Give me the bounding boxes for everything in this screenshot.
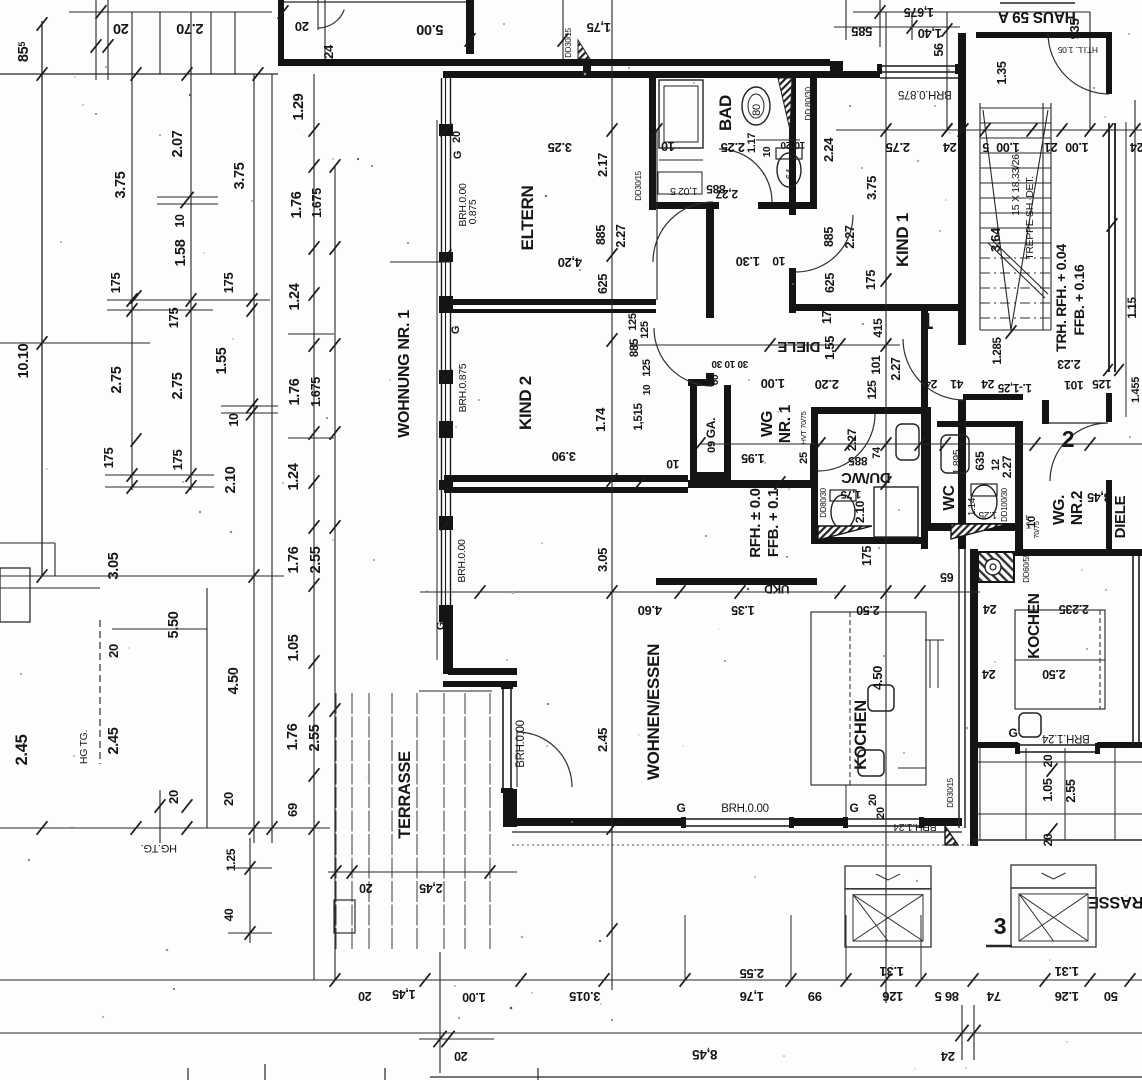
svg-text:2.24: 2.24	[821, 137, 836, 162]
svg-text:8,45: 8,45	[692, 1047, 718, 1062]
svg-text:74: 74	[871, 446, 883, 459]
svg-text:1.17: 1.17	[746, 133, 758, 153]
svg-text:4.50: 4.50	[226, 667, 242, 694]
svg-text:3.75: 3.75	[864, 176, 879, 200]
svg-text:2.17: 2.17	[595, 153, 610, 177]
svg-text:80: 80	[751, 104, 763, 116]
svg-text:885: 885	[594, 225, 608, 245]
svg-text:3.25: 3.25	[548, 140, 572, 155]
svg-text:415: 415	[871, 318, 885, 338]
svg-text:10: 10	[227, 413, 241, 427]
svg-text:3.75: 3.75	[113, 171, 129, 198]
svg-text:625: 625	[823, 273, 837, 293]
svg-text:1.14: 1.14	[967, 497, 978, 516]
svg-text:0.875: 0.875	[467, 199, 479, 224]
svg-text:G: G	[452, 151, 464, 159]
svg-text:NR.2: NR.2	[1069, 491, 1086, 525]
svg-text:2.07: 2.07	[170, 130, 186, 157]
svg-text:BRH.0.00: BRH.0.00	[456, 539, 468, 583]
svg-text:1.58: 1.58	[173, 239, 189, 266]
svg-text:WC: WC	[941, 485, 958, 510]
svg-text:10: 10	[794, 139, 805, 150]
svg-text:30: 30	[711, 358, 722, 369]
svg-text:UKD: UKD	[764, 582, 790, 596]
svg-text:24: 24	[924, 377, 937, 391]
svg-text:125: 125	[639, 321, 651, 339]
svg-text:2.55: 2.55	[740, 966, 764, 981]
svg-text:10: 10	[762, 146, 773, 157]
svg-text:FFB. + 0.16: FFB. + 0.16	[1071, 264, 1087, 336]
svg-text:5.50: 5.50	[166, 611, 182, 638]
svg-text:20: 20	[113, 20, 129, 36]
svg-text:2.50: 2.50	[856, 603, 879, 617]
svg-text:2.10: 2.10	[223, 466, 239, 493]
svg-text:1,76: 1,76	[740, 989, 764, 1004]
svg-text:1.-1,25: 1.-1,25	[997, 381, 1032, 393]
svg-text:20: 20	[1041, 754, 1055, 767]
svg-text:2.20: 2.20	[815, 377, 839, 392]
svg-text:09: 09	[706, 441, 718, 453]
svg-text:1,55: 1,55	[822, 336, 837, 360]
svg-text:DD80/30: DD80/30	[819, 487, 828, 517]
svg-text:24: 24	[321, 44, 336, 59]
svg-text:2.75: 2.75	[170, 372, 186, 399]
svg-text:1,45: 1,45	[392, 987, 415, 1001]
svg-text:ELTERN: ELTERN	[518, 186, 537, 251]
svg-text:20: 20	[780, 139, 791, 150]
svg-text:74: 74	[986, 989, 1001, 1004]
svg-text:1.895: 1.895	[951, 449, 963, 474]
svg-text:24: 24	[981, 377, 994, 391]
svg-text:10: 10	[809, 452, 821, 464]
svg-text:1.24: 1.24	[286, 463, 302, 490]
svg-text:4,20: 4,20	[558, 255, 582, 270]
svg-text:1.675: 1.675	[310, 188, 324, 218]
svg-text:64: 64	[785, 168, 796, 179]
svg-text:3.90: 3.90	[552, 449, 576, 464]
svg-text:HT.I.L. 1.05: HT.I.L. 1.05	[1057, 45, 1097, 55]
svg-text:2.27: 2.27	[889, 357, 903, 380]
svg-text:65: 65	[940, 570, 954, 584]
svg-text:1,75: 1,75	[587, 20, 611, 35]
svg-text:BRH.1.24: BRH.1.24	[1041, 732, 1089, 744]
svg-text:DD30/15: DD30/15	[946, 777, 955, 807]
svg-text:3,45: 3,45	[1087, 490, 1110, 504]
svg-text:1.05: 1.05	[1041, 778, 1055, 801]
svg-text:175: 175	[860, 546, 874, 566]
svg-text:3.015: 3.015	[569, 989, 600, 1004]
svg-text:2.27: 2.27	[614, 224, 628, 247]
svg-text:2.45: 2.45	[13, 734, 31, 765]
svg-text:1,02 5: 1,02 5	[670, 185, 698, 197]
svg-text:3.05: 3.05	[106, 552, 122, 579]
svg-text:1,75: 1,75	[841, 488, 861, 500]
svg-text:1.00: 1.00	[761, 376, 785, 391]
svg-text:50: 50	[1104, 989, 1118, 1004]
svg-text:24: 24	[983, 602, 997, 616]
svg-text:56: 56	[932, 43, 946, 57]
svg-text:24: 24	[982, 667, 996, 681]
svg-text:2.27: 2.27	[843, 225, 857, 248]
svg-text:BRH.1.24: BRH.1.24	[893, 821, 937, 833]
svg-text:10: 10	[173, 214, 187, 228]
svg-text:175: 175	[221, 273, 236, 294]
svg-text:41: 41	[950, 377, 963, 391]
svg-text:DD30/15: DD30/15	[564, 27, 573, 57]
svg-text:10: 10	[724, 358, 735, 369]
svg-text:1.29: 1.29	[291, 93, 307, 120]
svg-text:40: 40	[222, 908, 236, 921]
svg-text:1,515: 1,515	[633, 402, 645, 430]
svg-text:FFB. + 0.14: FFB. + 0.14	[765, 480, 782, 557]
svg-text:625: 625	[596, 274, 610, 294]
svg-text:3.75: 3.75	[232, 162, 248, 189]
svg-text:1.00: 1.00	[1065, 140, 1088, 154]
svg-text:WOHNEN/ESSEN: WOHNEN/ESSEN	[644, 644, 663, 780]
svg-text:DD 80/30: DD 80/30	[803, 87, 813, 121]
svg-text:101: 101	[869, 355, 883, 375]
svg-text:1.31: 1.31	[1055, 964, 1079, 979]
svg-text:DIELE: DIELE	[777, 338, 820, 355]
svg-text:3.05: 3.05	[595, 548, 610, 572]
svg-text:1.76: 1.76	[289, 191, 305, 218]
svg-text:1.15: 1.15	[1127, 297, 1139, 319]
svg-text:WG.: WG.	[1051, 495, 1068, 525]
svg-text:10: 10	[666, 457, 679, 471]
svg-text:24: 24	[940, 1049, 955, 1064]
svg-text:2.50: 2.50	[1042, 667, 1065, 681]
svg-text:G: G	[1008, 726, 1017, 740]
svg-text:20: 20	[221, 792, 236, 806]
svg-text:1.74: 1.74	[593, 407, 608, 432]
svg-text:24: 24	[1130, 140, 1142, 154]
svg-text:885: 885	[629, 338, 641, 357]
svg-text:2.70: 2.70	[176, 20, 203, 36]
svg-text:30: 30	[737, 358, 748, 369]
svg-text:2.55: 2.55	[308, 546, 324, 573]
svg-text:175: 175	[864, 270, 878, 290]
svg-text:5: 5	[982, 140, 989, 154]
svg-text:2.45: 2.45	[106, 727, 122, 754]
svg-text:2: 2	[1062, 426, 1075, 452]
svg-text:DD100/30: DD100/30	[1000, 487, 1009, 521]
svg-text:21: 21	[1044, 140, 1058, 154]
svg-text:DU/WC: DU/WC	[841, 469, 891, 486]
svg-text:1.30: 1.30	[736, 254, 760, 269]
svg-text:BRH.0.875: BRH.0.875	[898, 88, 952, 100]
svg-text:KIND 2: KIND 2	[516, 376, 535, 430]
svg-text:WOHNUNG NR. 1: WOHNUNG NR. 1	[396, 310, 413, 438]
svg-text:20: 20	[358, 989, 372, 1003]
svg-text:125: 125	[627, 313, 639, 331]
svg-text:1.76: 1.76	[287, 378, 303, 405]
svg-text:3.64: 3.64	[988, 227, 1003, 252]
svg-text:20: 20	[359, 881, 373, 895]
svg-text:G: G	[849, 801, 858, 815]
svg-text:70/75: 70/75	[1032, 521, 1041, 538]
svg-text:HG.TG.: HG.TG.	[141, 842, 177, 854]
svg-text:NR. 1: NR. 1	[777, 404, 794, 443]
svg-text:4.60: 4.60	[638, 603, 662, 618]
svg-text:15 X 18,33/26: 15 X 18,33/26	[1010, 154, 1022, 216]
svg-text:885: 885	[822, 227, 836, 247]
svg-text:125: 125	[1092, 377, 1112, 391]
svg-text:BRH.0.875: BRH.0.875	[457, 363, 469, 412]
svg-text:10: 10	[642, 384, 653, 395]
svg-text:175: 175	[166, 308, 181, 329]
svg-text:3: 3	[994, 913, 1007, 939]
svg-text:885: 885	[706, 182, 726, 196]
svg-text:2.55: 2.55	[1064, 779, 1078, 802]
svg-text:5.00: 5.00	[416, 21, 443, 37]
svg-text:KIND 1: KIND 1	[893, 213, 912, 267]
svg-text:1.76: 1.76	[285, 723, 301, 750]
svg-text:1.00: 1.00	[996, 140, 1019, 154]
svg-text:1.455: 1.455	[1130, 377, 1142, 403]
svg-text:TRH. RFH. + 0.04: TRH. RFH. + 0.04	[1053, 244, 1069, 352]
svg-text:2.25: 2.25	[721, 140, 745, 155]
svg-text:RFH. ± 0.00: RFH. ± 0.00	[747, 480, 764, 557]
svg-text:G: G	[450, 326, 462, 334]
svg-text:DD60/55: DD60/55	[1022, 552, 1031, 582]
svg-text:99: 99	[808, 989, 822, 1004]
svg-text:1: 1	[921, 308, 934, 334]
svg-text:585: 585	[852, 24, 873, 39]
svg-text:2.235: 2.235	[1059, 602, 1089, 616]
svg-text:10: 10	[772, 254, 785, 268]
svg-text:2.23: 2.23	[1057, 357, 1080, 371]
svg-text:10: 10	[661, 139, 675, 153]
svg-text:20: 20	[875, 807, 887, 819]
svg-text:WG: WG	[759, 411, 776, 437]
svg-text:HVT 70/75: HVT 70/75	[799, 411, 808, 444]
svg-text:1.35: 1.35	[995, 61, 1009, 84]
svg-text:DD30/15: DD30/15	[634, 170, 643, 200]
svg-text:KOCHEN: KOCHEN	[852, 700, 870, 770]
svg-text:KOCHEN: KOCHEN	[1026, 593, 1043, 658]
svg-text:TREPPE SH. DET.: TREPPE SH. DET.	[1024, 176, 1036, 260]
svg-text:175: 175	[820, 304, 834, 324]
svg-text:TERRASSE: TERRASSE	[396, 751, 414, 839]
svg-text:1.76: 1.76	[286, 546, 302, 573]
svg-text:175: 175	[108, 273, 123, 294]
svg-text:20: 20	[106, 644, 121, 658]
svg-text:1.675: 1.675	[309, 377, 323, 407]
svg-text:20: 20	[295, 19, 309, 34]
svg-text:101: 101	[1064, 378, 1084, 392]
svg-text:1.35: 1.35	[731, 603, 754, 617]
svg-text:635: 635	[973, 451, 987, 471]
svg-text:BRH.0.00: BRH.0.00	[721, 803, 768, 815]
svg-text:1.24: 1.24	[287, 283, 303, 310]
svg-text:1.55: 1.55	[214, 347, 230, 374]
svg-text:2.10: 2.10	[853, 500, 867, 523]
svg-text:4.50: 4.50	[870, 666, 885, 690]
svg-text:2.75: 2.75	[109, 366, 125, 393]
svg-text:GA.: GA.	[704, 418, 718, 438]
svg-text:1.00: 1.00	[462, 990, 485, 1004]
svg-text:1.26: 1.26	[1055, 989, 1079, 1004]
svg-text:1.95: 1.95	[741, 451, 764, 465]
svg-text:G: G	[676, 801, 685, 815]
svg-text:60: 60	[710, 374, 721, 385]
svg-text:20: 20	[166, 790, 181, 804]
svg-text:1.285: 1.285	[992, 336, 1004, 364]
svg-text:2.55: 2.55	[307, 724, 323, 751]
svg-text:175: 175	[101, 448, 116, 469]
svg-text:20: 20	[454, 1049, 468, 1063]
svg-text:HG TG.: HG TG.	[78, 730, 90, 764]
svg-text:1.25: 1.25	[978, 509, 997, 520]
svg-text:2.27: 2.27	[1000, 455, 1014, 478]
svg-text:2,45: 2,45	[419, 881, 442, 895]
svg-text:10.10: 10.10	[16, 343, 32, 378]
svg-text:20: 20	[451, 131, 463, 143]
svg-text:175: 175	[170, 450, 185, 471]
svg-text:69: 69	[285, 803, 300, 817]
svg-text:86 5: 86 5	[935, 989, 959, 1004]
svg-text:2.75: 2.75	[886, 140, 910, 155]
svg-text:BAD: BAD	[716, 95, 735, 131]
svg-text:DIELE: DIELE	[1112, 495, 1129, 538]
svg-text:2.45: 2.45	[595, 728, 610, 752]
svg-text:125: 125	[865, 380, 879, 400]
svg-text:1.31: 1.31	[880, 964, 904, 979]
svg-text:1.05: 1.05	[286, 634, 302, 661]
svg-text:20: 20	[867, 794, 879, 806]
svg-text:125: 125	[641, 359, 653, 377]
svg-text:126: 126	[883, 989, 904, 1004]
svg-text:HAUS 59 A: HAUS 59 A	[998, 8, 1076, 25]
svg-text:1,40: 1,40	[918, 26, 942, 41]
svg-text:24: 24	[943, 140, 957, 154]
